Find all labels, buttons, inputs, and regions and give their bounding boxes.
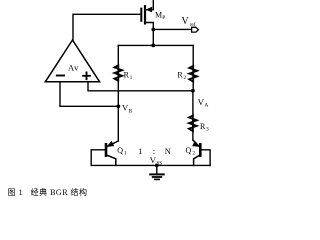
svg-text:M: M — [155, 10, 162, 19]
node rail junction — [151, 44, 155, 48]
svg-text:V: V — [182, 16, 190, 27]
wire plus input to VA — [88, 82, 192, 91]
svg-text:B: B — [129, 108, 133, 114]
svg-text:Av: Av — [68, 64, 79, 73]
resistor R1 — [114, 45, 132, 106]
transistor MP — [141, 0, 165, 29]
wire drain node to Vref terminal — [153, 28, 191, 30]
svg-text:P: P — [162, 15, 165, 21]
wire top rail — [118, 44, 193, 46]
resistor R3 — [189, 115, 209, 140]
svg-text:2: 2 — [192, 151, 195, 157]
wire VB down to Q1 emitter — [117, 106, 119, 141]
svg-text:Q: Q — [186, 146, 192, 155]
node drain junction — [151, 28, 155, 32]
svg-text:N: N — [165, 147, 171, 156]
svg-text:1: 1 — [130, 75, 133, 81]
node VB — [116, 103, 132, 115]
transistor Q2 — [186, 140, 211, 165]
transistor Q1 — [91, 141, 127, 165]
svg-text:图 1 经典 BGR 结构: 图 1 经典 BGR 结构 — [8, 187, 88, 197]
svg-text:ref: ref — [190, 21, 196, 28]
ground — [150, 164, 164, 180]
wire bottom rail — [91, 164, 210, 166]
wire op-amp output to MP gate — [73, 14, 141, 40]
svg-text:1: 1 — [124, 151, 127, 157]
wire minus input to VB — [60, 82, 117, 106]
svg-text:Q: Q — [117, 146, 123, 155]
wire VA down to R3 — [192, 91, 194, 116]
net VSS — [150, 155, 162, 167]
node Vref output terminal — [182, 16, 199, 32]
svg-text:1: 1 — [138, 147, 142, 156]
node VA — [191, 89, 208, 109]
svg-text:3: 3 — [206, 127, 209, 133]
op-amp Av — [45, 40, 99, 82]
wire drain node down to rail — [152, 29, 154, 45]
svg-text:2: 2 — [183, 75, 186, 81]
resistor R2 — [177, 45, 197, 90]
svg-text:A: A — [204, 103, 208, 109]
